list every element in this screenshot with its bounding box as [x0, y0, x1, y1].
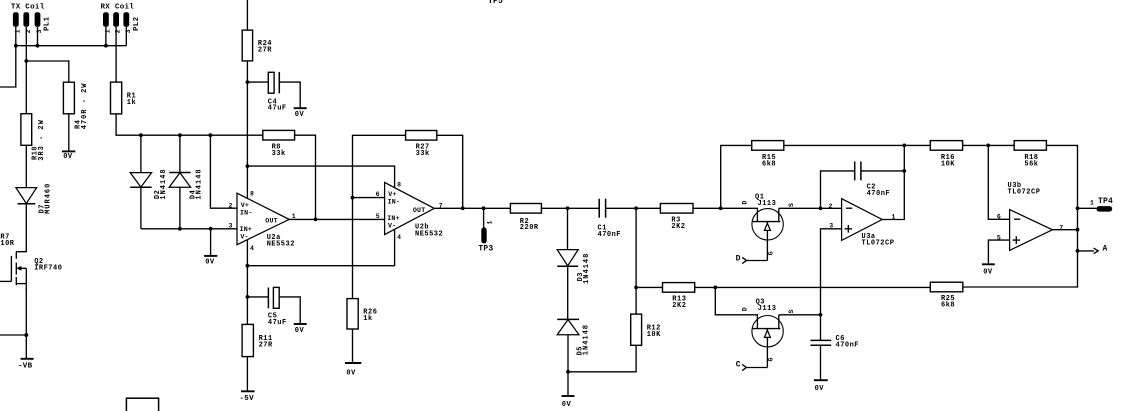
ground 0V below pin3 node [204, 256, 217, 267]
wire Q2 source down to -VB [25, 288, 27, 359]
resistor R10 3R3 - 2W [21, 114, 46, 161]
wire R4 to 0V [68, 114, 70, 152]
resistor R1 1k [111, 82, 137, 114]
svg-text:IRF740: IRF740 [34, 265, 62, 273]
junction node line / pin2 branch [209, 133, 213, 137]
resistor R13 2K2 [663, 283, 695, 311]
svg-text:10R: 10R [0, 240, 14, 248]
op-amp U3b TL072CP [997, 182, 1063, 251]
svg-text:1N4148: 1N4148 [196, 168, 204, 199]
svg-text:470R - 2W: 470R - 2W [81, 82, 89, 129]
wire U2b output to R2 [434, 207, 510, 209]
svg-text:D: D [736, 255, 741, 264]
resistor R15 6k8 [752, 141, 784, 169]
wire D3 to D5 [567, 266, 569, 319]
svg-text:-5V: -5V [240, 395, 255, 403]
junction C2 / U3a pin2 wire [819, 206, 823, 210]
junction TP3 / signal wire [482, 206, 486, 210]
wire branch to R4 [26, 61, 69, 82]
svg-text:1: 1 [1090, 199, 1094, 206]
junction V+ rail / C4 [246, 80, 250, 84]
svg-text:1k: 1k [363, 315, 372, 323]
svg-text:MUR460: MUR460 [44, 183, 52, 214]
wire -5V rail between pin4s [247, 229, 394, 265]
svg-text:3R3 - 2W: 3R3 - 2W [38, 119, 46, 161]
wire V+ rail to U2b pin8 [247, 166, 394, 188]
net flag C [736, 360, 768, 370]
net flag D [736, 255, 768, 264]
svg-text:TL072CP: TL072CP [1008, 189, 1041, 197]
svg-text:D: D [741, 307, 748, 311]
svg-text:1N4148: 1N4148 [583, 324, 591, 355]
ground 0V below U3b pin5 [982, 264, 995, 276]
svg-text:V+: V+ [388, 191, 396, 198]
junction D5 / R12 bottom link [566, 370, 570, 374]
wire C6 to 0V [820, 345, 822, 380]
op-amp U3a TL072CP [829, 199, 896, 248]
junction C5 / R11 [246, 295, 250, 299]
svg-text:0V: 0V [815, 385, 825, 393]
svg-text:C: C [736, 360, 741, 369]
svg-text:47uF: 47uF [268, 319, 287, 327]
svg-text:33k: 33k [272, 150, 286, 158]
wire R18 right down to output [963, 145, 1078, 287]
junction U3b output [1076, 228, 1080, 232]
text R7 10R [0, 234, 14, 248]
wire R13 right to R25 [695, 286, 931, 288]
wire +V rail from R24 down to U2a pin8 [246, 0, 248, 199]
svg-text:27R: 27R [258, 47, 272, 55]
wire U2b pin6 [353, 197, 385, 199]
junction R27 net / U2b pin6 [351, 196, 355, 200]
resistor R8 33k [263, 130, 295, 158]
transistor Q2 IRF740 [11, 252, 62, 291]
component box bottom left [126, 398, 158, 411]
svg-text:2: 2 [829, 203, 833, 210]
svg-text:1N4148: 1N4148 [160, 168, 168, 199]
ground 0V below C4 [294, 108, 307, 119]
svg-text:TP5: TP5 [488, 0, 503, 6]
svg-text:A: A [1103, 244, 1108, 253]
wire C1 to R3 [606, 207, 661, 209]
wire D2 branch [140, 135, 142, 229]
wire R27 right to U2b output [437, 135, 463, 208]
wire bus TX/RX pins [16, 45, 127, 47]
svg-text:G: G [768, 251, 775, 255]
resistor R26 1k [347, 299, 377, 329]
wire U3b pin5 to 0V [988, 240, 1009, 264]
junction TX pin2 / R4 branch [24, 59, 28, 63]
junction R15 / Q1 drain wire [719, 206, 723, 210]
resistor R27 33k [406, 131, 437, 159]
svg-text:0V: 0V [562, 401, 572, 409]
svg-text:IN-: IN- [388, 199, 400, 206]
wire TX pin3 to bus [37, 27, 39, 46]
svg-text:3: 3 [229, 223, 233, 230]
svg-text:TP3: TP3 [478, 245, 493, 254]
ground 0V below R4 [62, 151, 75, 161]
svg-text:2: 2 [229, 203, 233, 210]
junction TP4 branch [1076, 206, 1080, 210]
wire bottom link D5 to R12 [568, 345, 636, 372]
wire R11 to -5V [246, 357, 248, 392]
svg-text:V-: V- [388, 222, 396, 229]
wire R26 to 0V [352, 329, 354, 363]
test point TP4 [1078, 197, 1114, 212]
svg-text:PL1: PL1 [43, 16, 51, 31]
junction R13 right / Q3 drain branch [713, 286, 717, 290]
svg-text:8: 8 [250, 190, 254, 197]
wire branch down to Q3 drain [715, 287, 757, 328]
svg-text:1: 1 [487, 221, 494, 225]
svg-text:NE5532: NE5532 [415, 230, 443, 238]
svg-text:0V: 0V [346, 369, 356, 377]
junction R13 left / R12 vertical [634, 286, 638, 290]
svg-text:470nF: 470nF [836, 341, 860, 349]
svg-text:G: G [768, 358, 775, 362]
junction TX pin3 / bus [36, 44, 40, 48]
svg-text:S: S [788, 203, 795, 207]
diode D7 MUR460 [16, 183, 52, 214]
power -5V [240, 391, 255, 403]
svg-text:D: D [741, 201, 748, 205]
junction bottom node / D4 [178, 227, 182, 231]
svg-text:J113: J113 [758, 305, 777, 313]
wire R13 left to R12 node [636, 286, 662, 288]
wire R16 to R18 [904, 144, 1014, 146]
wire TX pin1 to left edge [0, 27, 16, 87]
junction V+ line / opamp supply rail [246, 164, 250, 168]
capacitor C5 47uF [268, 287, 287, 327]
test point TP3 [478, 208, 493, 253]
wire U3b output [1052, 229, 1077, 231]
svg-text:J113: J113 [758, 200, 777, 208]
svg-text:TX Coil: TX Coil [11, 4, 45, 12]
svg-text:1N4148: 1N4148 [583, 253, 591, 284]
wire U3a output up to R16 node [882, 145, 904, 219]
connector PL2 RX Coil [101, 4, 142, 34]
op-amp U2b NE5532 [376, 181, 444, 241]
diode D4 1N4148 [169, 168, 203, 199]
svg-text:IN+: IN+ [240, 226, 252, 233]
wire U2a pin4 down [246, 240, 248, 325]
junction R15-R16 node [902, 144, 906, 148]
wire C5 leads [247, 297, 300, 324]
wire R2 to C1 [541, 207, 599, 209]
resistor R3 2K2 [660, 204, 693, 232]
wire R15 right to output node [784, 144, 905, 146]
junction TX pin1 / bus [14, 44, 18, 48]
transistor Q3 J113 [741, 299, 795, 368]
svg-text:NE5532: NE5532 [267, 241, 295, 249]
junction node line / D4 [178, 133, 182, 137]
wire D5 to 0V [567, 335, 569, 396]
svg-text:6k8: 6k8 [762, 160, 776, 168]
resistor R4 470R - 2W [63, 82, 89, 129]
wire R27 net vertical / R26 top [353, 135, 406, 298]
svg-text:470nF: 470nF [598, 231, 622, 239]
capacitor C4 47uF [268, 72, 287, 113]
svg-text:0V: 0V [205, 258, 215, 266]
ground 0V below C6 [814, 380, 828, 393]
junction bottom node / 0V stub [209, 227, 213, 231]
wire Q3 source to C6 node [779, 314, 821, 316]
junction R27 / U2b output [461, 206, 465, 210]
svg-text:TL072CP: TL072CP [862, 240, 895, 248]
svg-text:6: 6 [997, 214, 1001, 221]
svg-text:4: 4 [397, 234, 401, 241]
svg-text:OUT: OUT [413, 207, 425, 214]
svg-text:V-: V- [240, 233, 248, 240]
resistor R12 10K [631, 314, 661, 345]
svg-text:2K2: 2K2 [671, 223, 685, 231]
power -VB [18, 359, 34, 371]
resistor R24 27R [242, 30, 272, 61]
diode D2 1N4148 [130, 168, 168, 199]
wire R10 to D7 [25, 145, 27, 187]
junction Q3 source / C6 [819, 313, 823, 317]
wire U2a output to U2b pin5 [289, 218, 384, 220]
svg-text:0V: 0V [63, 153, 73, 161]
svg-text:27R: 27R [259, 342, 273, 350]
svg-text:-VB: -VB [18, 363, 33, 371]
svg-text:5: 5 [376, 213, 380, 220]
svg-text:0V: 0V [295, 327, 305, 335]
svg-text:IN+: IN+ [387, 215, 399, 222]
junction C2 right / output vertical [902, 169, 906, 173]
junction R12 net / signal wire [634, 206, 638, 210]
svg-text:470nF: 470nF [867, 190, 891, 198]
resistor R18 56k [1014, 141, 1046, 169]
svg-text:1: 1 [292, 213, 296, 220]
svg-text:OUT: OUT [265, 218, 277, 225]
node junction at Q2 source [24, 333, 28, 337]
svg-text:TP4: TP4 [1098, 197, 1113, 206]
svg-text:56k: 56k [1024, 160, 1038, 168]
svg-text:33k: 33k [416, 150, 430, 158]
svg-text:8: 8 [397, 181, 401, 188]
capacitor C1 470nF [598, 199, 622, 239]
wire D4 branch [179, 135, 181, 229]
svg-text:S: S [788, 310, 795, 314]
ground 0V below D5 [562, 396, 575, 409]
svg-text:6k8: 6k8 [941, 302, 955, 310]
svg-text:5: 5 [997, 235, 1001, 242]
junction -5V rail / U2a pin4 [246, 264, 250, 268]
svg-text:IN-: IN- [240, 209, 252, 216]
wire node to U2a pin2 [210, 135, 237, 208]
junction R8 / U2a output [314, 218, 318, 222]
wire RX pin3 to bus [125, 27, 127, 46]
connector PL1 TX Coil [11, 4, 52, 34]
junction R16-R18 node [986, 144, 990, 148]
junction A branch [1076, 249, 1080, 253]
capacitor C6 470nF [810, 335, 859, 350]
svg-text:220R: 220R [520, 224, 539, 232]
svg-text:PL2: PL2 [133, 16, 141, 31]
wire RX pin1 to bus [105, 27, 107, 46]
wire bottom node to U2a pin3 [141, 228, 237, 230]
resistor R16 10K [930, 141, 962, 169]
junction Q2 source / -VB [24, 333, 28, 337]
svg-text:10K: 10K [647, 331, 661, 339]
resistor R25 6k8 [930, 282, 963, 310]
svg-text:1k: 1k [127, 99, 136, 107]
junction RX pin1 / bus [104, 44, 108, 48]
junction D3 / signal wire [566, 206, 570, 210]
transistor Q1 J113 [741, 193, 795, 260]
ground 0V below R26 [345, 363, 361, 377]
diode D5 1N4148 [557, 319, 590, 355]
svg-text:2K2: 2K2 [672, 302, 686, 310]
wire Q2 gate lead [0, 280, 11, 282]
svg-text:0V: 0V [295, 111, 305, 119]
wire R3 to Q1 drain [693, 208, 757, 221]
svg-text:4: 4 [250, 245, 254, 252]
capacitor C2 470nF [821, 162, 905, 209]
wire R8 right to U2a output [295, 135, 316, 219]
resistor R11 27R [242, 324, 273, 356]
wire C1 node down to R12 [635, 208, 637, 314]
svg-text:V+: V+ [241, 202, 249, 209]
wire C4 leads [247, 82, 300, 108]
junction node line / D2 [139, 133, 143, 137]
svg-text:6: 6 [376, 191, 380, 198]
wire TX pin2 down to R10 [25, 27, 27, 114]
net flag A [1078, 244, 1108, 253]
wire RX pin2 down to R1 [115, 27, 117, 82]
ground 0V below C5 [294, 324, 307, 335]
resistor R2 220R [510, 204, 541, 233]
svg-text:47uF: 47uF [268, 105, 287, 113]
wire node to U3b pin6 [988, 145, 1009, 219]
wire U3a pin3 net [821, 229, 842, 340]
wire D7 to Q2 drain [16, 204, 26, 252]
wire R1 to node line [116, 114, 263, 135]
wire R3 node down to R13 wire [721, 145, 752, 208]
op-amp U2a NE5532 [229, 190, 296, 252]
wire left edge to source junction [0, 334, 26, 336]
svg-text:10K: 10K [941, 160, 955, 168]
wire 0V stub [210, 229, 212, 256]
svg-text:RX Coil: RX Coil [101, 4, 135, 12]
diode D3 1N4148 [557, 208, 591, 284]
svg-text:0V: 0V [983, 269, 993, 277]
wire Q1 source to U3a pin2 [779, 207, 842, 209]
